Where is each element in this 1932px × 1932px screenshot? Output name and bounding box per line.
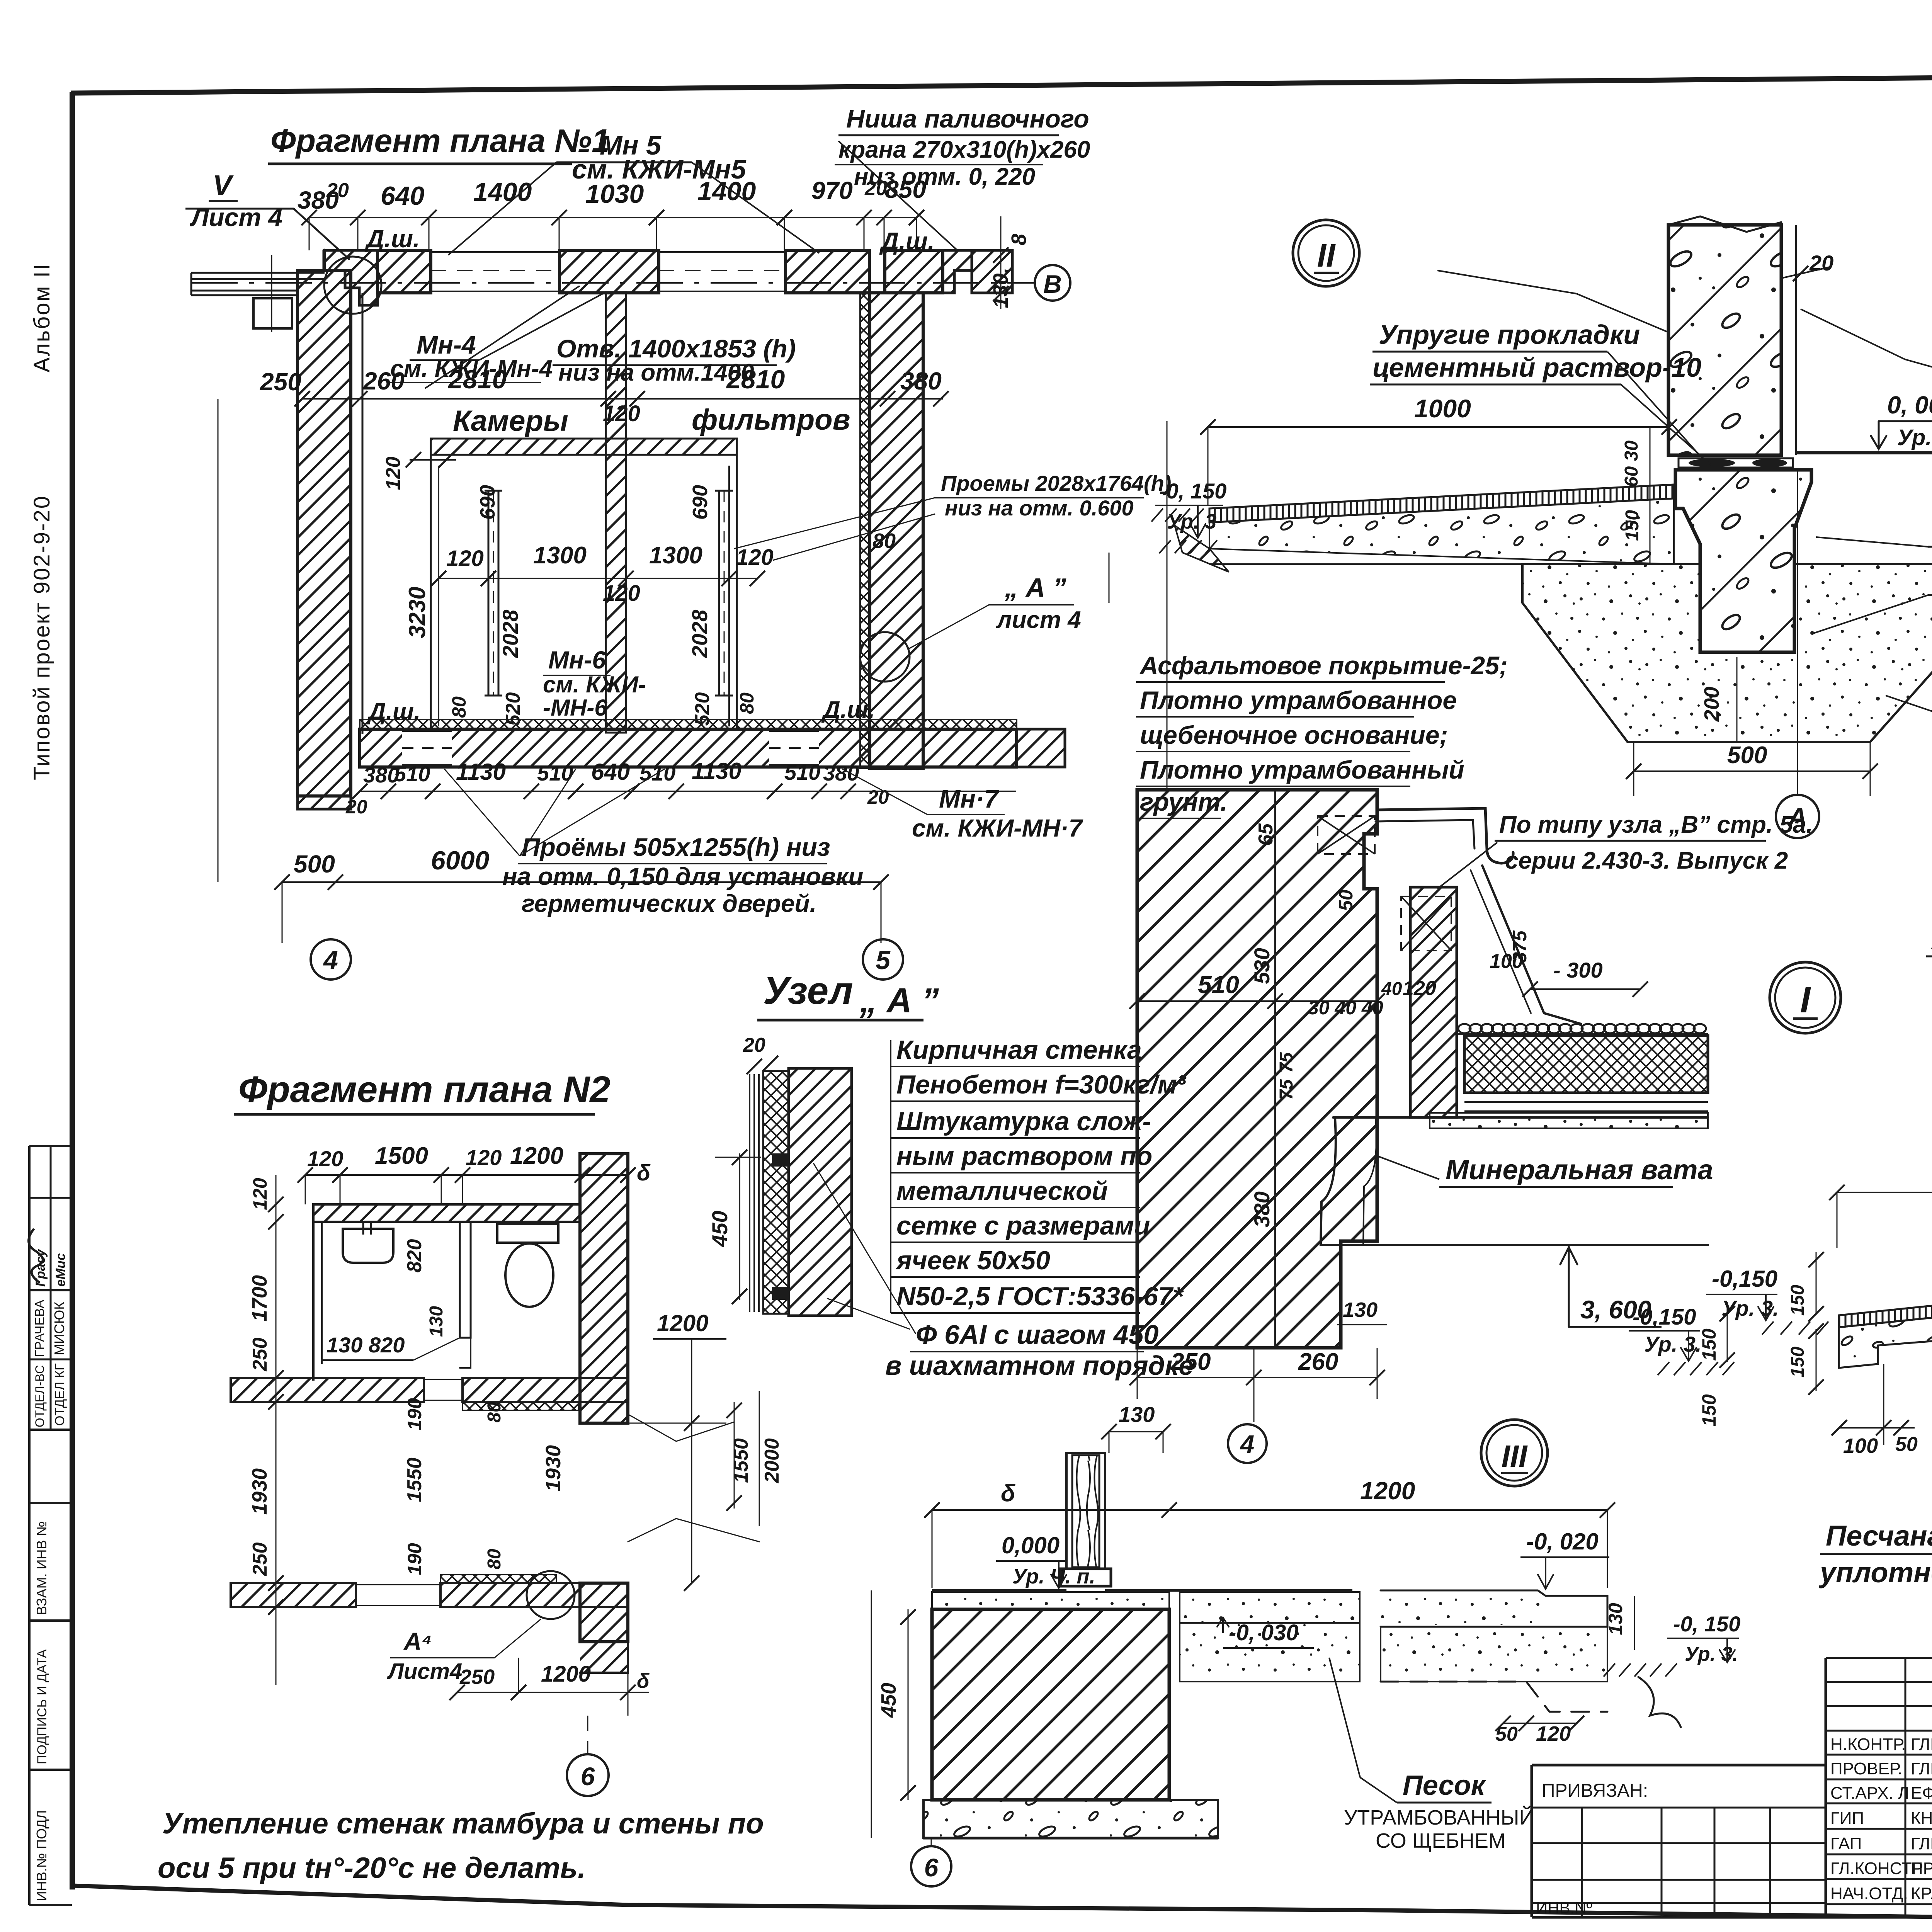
svg-text:см. КЖИ-МН·7: см. КЖИ-МН·7 (912, 814, 1083, 842)
column break marks top (1668, 216, 1781, 232)
svg-text:„ А ”: „ А ” (859, 981, 939, 1020)
detail circle on wall2 (527, 1571, 575, 1619)
dim 1500 (1837, 1192, 1932, 1193)
svg-text:820: 820 (403, 1239, 426, 1273)
svg-text:III: III (1502, 1439, 1528, 1473)
svg-text:120: 120 (382, 457, 405, 490)
left apron (1839, 1300, 1932, 1327)
gate frames МН-6 (488, 491, 490, 696)
svg-text:В: В (1043, 270, 1062, 298)
svg-text:Упругие прокладки: Упругие прокладки (1379, 320, 1640, 350)
svg-text:190: 190 (404, 1398, 425, 1430)
wall layers detail (к узлу А) (749, 1074, 750, 1312)
svg-text:1550: 1550 (730, 1438, 752, 1483)
svg-text:герметических дверей.: герметических дверей. (522, 889, 816, 917)
insulation strip under wall1 right part (463, 1402, 578, 1410)
svg-text:510: 510 (394, 762, 430, 786)
svg-text:Типовой проект 902-9-20: Типовой проект 902-9-20 (29, 495, 54, 780)
svg-text:А: А (1787, 803, 1807, 832)
svg-text:-0, 030: -0, 030 (1229, 1620, 1299, 1645)
plan2 top dim row 120 1500 120 1200 (305, 1174, 628, 1176)
svg-text:690: 690 (476, 485, 499, 520)
svg-text:Д.ш.: Д.ш. (367, 698, 420, 725)
svg-text:1550: 1550 (403, 1458, 426, 1502)
svg-text:Н.КОНТР.: Н.КОНТР. (1830, 1735, 1906, 1754)
svg-text:Ф 6АI с шагом 450: Ф 6АI с шагом 450 (916, 1320, 1158, 1350)
svg-text:-МН-6: -МН-6 (543, 695, 607, 721)
node I: big brick wall section (1137, 790, 1377, 1348)
footing below (923, 1800, 1218, 1838)
svg-text:Отв. 1400х1853 (h): Отв. 1400х1853 (h) (556, 334, 796, 363)
svg-text:250: 250 (249, 1338, 271, 1372)
dim 1000 (1208, 426, 1669, 428)
svg-text:500: 500 (294, 850, 335, 878)
svg-text:-0,150: -0,150 (1633, 1304, 1696, 1330)
inner rooms of plan1 (431, 439, 737, 455)
svg-text:Ур. 3.: Ур. 3. (1721, 1296, 1779, 1320)
plan2 bottom dims (457, 1692, 649, 1693)
svg-text:150: 150 (1787, 1347, 1808, 1378)
stamp signatures (29, 1229, 43, 1283)
svg-text:оси 5 при tн°-20°с не дел: оси 5 при tн°-20°с не делать. (158, 1852, 586, 1884)
plan1 left outer wall (298, 270, 351, 796)
svg-text:ЕФРЕМОВА: ЕФРЕМОВА (1911, 1784, 1932, 1803)
svg-text:1200: 1200 (510, 1143, 563, 1169)
roof gravel chain (1458, 1024, 1706, 1033)
svg-text:1300: 1300 (649, 542, 702, 569)
svg-text:Узел: Узел (763, 969, 853, 1012)
svg-text:80: 80 (484, 1402, 505, 1423)
node I circle marker (1770, 962, 1841, 1033)
svg-text:60 30: 60 30 (1621, 440, 1642, 487)
svg-text:Мн-6: Мн-6 (548, 646, 606, 674)
wood door post (node III) (1066, 1453, 1105, 1569)
svg-text:120: 120 (446, 546, 484, 571)
svg-text:4: 4 (323, 946, 338, 975)
svg-text:ПОДПИСЬ И ДАТА: ПОДПИСЬ И ДАТА (35, 1649, 49, 1764)
svg-text:75: 75 (1276, 1079, 1297, 1100)
svg-text:30 40 40: 30 40 40 (1308, 997, 1383, 1019)
svg-text:8: 8 (1007, 234, 1031, 245)
svg-text:120: 120 (603, 581, 640, 606)
svg-text:150: 150 (1698, 1394, 1720, 1427)
svg-text:сетке с размерами: сетке с размерами (896, 1211, 1150, 1240)
svg-text:Минеральная вата: Минеральная вата (1446, 1155, 1713, 1185)
node II column (1668, 225, 1781, 455)
svg-text:250: 250 (260, 368, 301, 396)
svg-text:- 300: - 300 (1553, 958, 1603, 982)
roof insulation slab (crosshatch) (1464, 1036, 1708, 1093)
svg-text:2000: 2000 (761, 1438, 783, 1483)
svg-text:δ: δ (637, 1160, 651, 1185)
svg-text:еМис: еМис (53, 1253, 68, 1287)
svg-text:НАЧ.ОТД.: НАЧ.ОТД. (1830, 1884, 1908, 1903)
svg-text:1200: 1200 (657, 1310, 708, 1336)
svg-text:640: 640 (381, 181, 425, 211)
svg-text:уплотненная щебнем: уплотненная щебнем (1818, 1556, 1932, 1588)
svg-text:120: 120 (249, 1178, 271, 1210)
dim 120 1300 1300 120 (439, 578, 757, 579)
450 dim (908, 1609, 909, 1800)
svg-text:Ниша паливочного: Ниша паливочного (846, 104, 1089, 133)
svg-text:„ А ”: „ А ” (1004, 573, 1066, 603)
axis circle 6 (plan2) (567, 1754, 609, 1796)
plan1 right outer wall (870, 293, 923, 768)
svg-text:-0, 150: -0, 150 (1159, 479, 1226, 503)
plan2 top-right wall block (580, 1154, 628, 1423)
elastic gaskets (black) (1679, 458, 1793, 468)
title block left box ПРИВЯЗАН (1532, 1764, 1826, 1767)
svg-text:Ур. 3.: Ур. 3. (1685, 1643, 1738, 1665)
svg-text:1130: 1130 (692, 758, 742, 784)
svg-text:2028: 2028 (687, 609, 712, 658)
svg-text:1000: 1000 (1414, 394, 1471, 423)
svg-text:Кирпичная стенка: Кирпичная стенка (896, 1035, 1142, 1065)
svg-text:-0, 020: -0, 020 (1526, 1529, 1599, 1554)
roof slab / beam (1333, 1116, 1708, 1119)
axis circle A below node II (1776, 795, 1819, 838)
svg-text:δ: δ (1001, 1480, 1015, 1507)
floor line right of column (1796, 451, 1932, 454)
svg-text:ГРАЧЕВА: ГРАЧЕВА (32, 1299, 47, 1357)
svg-text:40: 40 (1381, 979, 1402, 999)
top dim line b / 1200 (932, 1509, 1169, 1511)
svg-text:380: 380 (1250, 1191, 1274, 1227)
plan2 left dim chain (276, 1175, 277, 1685)
bottom dims 250 260 (1137, 1377, 1377, 1378)
svg-text:510: 510 (1198, 971, 1239, 998)
node I dims (1137, 1000, 1377, 1002)
svg-text:530: 530 (1250, 948, 1274, 984)
svg-text:-0,150: -0,150 (1712, 1266, 1777, 1292)
svg-text:50: 50 (1495, 1723, 1518, 1745)
svg-text:120: 120 (736, 545, 774, 570)
plan2 top wall (313, 1204, 580, 1222)
svg-text:ным раствором по: ным раствором по (896, 1141, 1152, 1171)
svg-text:Д.ш.: Д.ш. (364, 225, 420, 253)
right end pieces of top wall (943, 250, 972, 293)
svg-text:Штукатурка слож-: Штукатурка слож- (896, 1107, 1151, 1136)
rebar leader into column (1577, 294, 1668, 332)
plan2 middle wall 1 (231, 1378, 424, 1402)
svg-text:120: 120 (307, 1146, 343, 1171)
svg-text:ИНВ.№ ПОДЛ: ИНВ.№ ПОДЛ (34, 1810, 49, 1901)
svg-text:Камеры: Камеры (453, 405, 568, 437)
svg-text:250: 250 (249, 1543, 271, 1577)
door openings in bottom band (402, 731, 452, 765)
svg-text:ГЛ.КОНСТР: ГЛ.КОНСТР (1830, 1859, 1923, 1878)
svg-text:Плотно утрамбованное: Плотно утрамбованное (1140, 686, 1457, 714)
foundation beam (1675, 470, 1811, 652)
svg-text:130: 130 (1119, 1402, 1155, 1427)
svg-text:ИНВ.Nº: ИНВ.Nº (1536, 1899, 1592, 1917)
svg-text:970: 970 (811, 177, 853, 204)
svg-text:ГАП: ГАП (1830, 1834, 1862, 1853)
svg-text:3230: 3230 (404, 587, 430, 638)
svg-text:По типу узла „В” стр. 5а.: По типу узла „В” стр. 5а. (1499, 811, 1813, 838)
svg-text:75: 75 (1276, 1052, 1297, 1073)
svg-text:130: 130 (1343, 1298, 1378, 1321)
parapet flashing profile (1377, 808, 1513, 863)
svg-text:металлической: металлической (896, 1176, 1108, 1206)
svg-text:1400: 1400 (473, 177, 532, 207)
svg-text:Фрагмент плана N2: Фрагмент плана N2 (238, 1069, 611, 1110)
svg-text:20: 20 (867, 786, 889, 808)
svg-text:200: 200 (1700, 687, 1723, 722)
svg-text:фильтров: фильтров (692, 403, 850, 436)
svg-text:ОТДЕЛ-ВС: ОТДЕЛ-ВС (33, 1365, 47, 1427)
svg-text:низ отм. 0, 220: низ отм. 0, 220 (854, 163, 1035, 190)
floor layers right of post (1180, 1592, 1360, 1623)
plan2 right dim chains 1550 2000 (734, 1402, 735, 1509)
wooden plug dashed boxes (1318, 816, 1375, 854)
svg-text:4: 4 (1240, 1430, 1255, 1458)
svg-text:6: 6 (924, 1853, 939, 1882)
plan2 left wall (312, 1204, 315, 1381)
axis circles 4 and 5 (311, 939, 351, 980)
svg-text:1130: 1130 (456, 759, 506, 785)
svg-text:МИСЮК: МИСЮК (51, 1302, 67, 1355)
right slab section (1381, 1590, 1607, 1627)
svg-text:260: 260 (363, 367, 405, 395)
svg-text:А⁴: А⁴ (403, 1628, 432, 1655)
svg-text:1200: 1200 (1360, 1477, 1415, 1505)
foundation wall block (932, 1609, 1169, 1800)
svg-text:крана 270х310(h)х260: крана 270х310(h)х260 (838, 136, 1090, 163)
svg-text:100: 100 (1843, 1434, 1878, 1458)
node II circle marker (1293, 220, 1359, 286)
svg-text:1300: 1300 (533, 542, 587, 569)
svg-text:1930: 1930 (248, 1468, 271, 1515)
svg-text:Лист4: Лист4 (387, 1659, 462, 1684)
floor line and slab left (932, 1589, 1066, 1592)
dim row 500 6000 (282, 881, 881, 883)
soil at far left (1151, 509, 1163, 522)
inner wall line (1274, 790, 1276, 1348)
svg-text:ПРИВЯЗАН:: ПРИВЯЗАН: (1542, 1781, 1648, 1801)
plan2 bottom-right block (580, 1583, 628, 1642)
svg-text:2028: 2028 (498, 609, 522, 658)
svg-text:лист 4: лист 4 (996, 607, 1081, 633)
svg-text:20: 20 (326, 179, 349, 202)
title block: central signature table (1826, 1657, 1932, 1659)
svg-text:Ур. Ч. п.: Ур. Ч. п. (1012, 1565, 1095, 1588)
svg-text:СО ЩЕБНЕМ: СО ЩЕБНЕМ (1376, 1829, 1506, 1852)
axis circle 4 under node I (1228, 1424, 1267, 1463)
svg-text:375: 375 (1509, 930, 1531, 963)
svg-text:450: 450 (707, 1211, 732, 1247)
svg-text:V: V (213, 169, 234, 201)
parapet wall column (1410, 887, 1457, 1117)
dims 50 120 (1503, 1723, 1577, 1724)
toilet (497, 1224, 558, 1243)
top dimension tier: 380 20 640 1400 1030 1400 970 20 850 (309, 217, 917, 218)
svg-text:Песок: Песок (1403, 1770, 1486, 1801)
svg-text:Ур. Ч. п.: Ур. Ч. п. (1897, 425, 1932, 450)
svg-text:Асфальтовое покрытие-25;: Асфальтовое покрытие-25; (1139, 651, 1508, 680)
dim row 380 510 1130 510 640 510 1130 510 380 (360, 791, 1016, 792)
svg-text:см. КЖИ-: см. КЖИ- (543, 672, 646, 697)
dims 100 50 (1839, 1427, 1915, 1429)
svg-text:510: 510 (784, 760, 820, 784)
svg-text:ВЗАМ. ИНВ №: ВЗАМ. ИНВ № (34, 1521, 49, 1615)
svg-text:Мн·7: Мн·7 (939, 784, 1000, 813)
svg-text:150: 150 (1698, 1328, 1720, 1361)
svg-text:1500: 1500 (375, 1143, 428, 1169)
plan1 bottom wall band (360, 729, 1017, 767)
svg-text:120: 120 (466, 1145, 502, 1170)
svg-text:190: 190 (404, 1543, 425, 1575)
svg-text:СТ.АРХ. Л: СТ.АРХ. Л (1830, 1784, 1909, 1803)
long extension line (1167, 421, 1168, 788)
wood plugs in wall detail (772, 1153, 788, 1167)
svg-text:500: 500 (1727, 742, 1767, 769)
svg-text:ОТДЕЛ КГ: ОТДЕЛ КГ (53, 1363, 67, 1426)
svg-text:δ: δ (637, 1669, 650, 1692)
svg-text:Утепление стенак тамбура и: Утепление стенак тамбура и стены по (162, 1807, 764, 1840)
svg-text:0, 000: 0, 000 (1887, 391, 1932, 419)
svg-text:50: 50 (1335, 889, 1357, 911)
svg-text:низ на отм. 0.600: низ на отм. 0.600 (945, 496, 1134, 520)
svg-text:80: 80 (872, 529, 896, 553)
plan1 top wall band with openings (324, 250, 378, 305)
svg-text:120: 120 (1536, 1722, 1571, 1745)
svg-text:250: 250 (1170, 1349, 1211, 1375)
svg-text:КНЯГИНИЧЕВ: КНЯГИНИЧЕВ (1911, 1809, 1932, 1828)
svg-text:Песчаная подушка: Песчаная подушка (1826, 1520, 1932, 1552)
svg-text:6000: 6000 (431, 846, 489, 875)
svg-text:80: 80 (736, 692, 758, 714)
svg-text:ГЛЕБОВ: ГЛЕБОВ (1911, 1834, 1932, 1853)
svg-text:80: 80 (484, 1549, 505, 1570)
asphalt band sloping left of column (1209, 485, 1674, 522)
partition between bathrooms (460, 1222, 471, 1338)
svg-text:-0, 150: -0, 150 (1673, 1612, 1740, 1636)
svg-text:20: 20 (743, 1034, 765, 1056)
svg-text:80: 80 (448, 696, 470, 718)
svg-text:II: II (1317, 237, 1336, 274)
svg-text:130: 130 (426, 1306, 447, 1337)
border frame (70, 92, 75, 1889)
svg-text:150: 150 (1622, 510, 1643, 541)
left margin stamp table (28, 1146, 31, 1905)
svg-text:Фрагмент плана №1: Фрагмент плана №1 (270, 122, 610, 159)
svg-text:на отм. 0,150 для установк: на отм. 0,150 для установки (502, 862, 864, 890)
svg-text:Плотно утрамбованный: Плотно утрамбованный (1140, 755, 1464, 784)
sand pit of node II (1522, 564, 1932, 742)
axis circle 6 (node III) (911, 1846, 951, 1886)
svg-text:I: I (1800, 979, 1811, 1020)
svg-text:250: 250 (459, 1665, 495, 1689)
sink (343, 1229, 393, 1263)
svg-text:Лист 4: Лист 4 (190, 203, 282, 231)
svg-text:ГИП: ГИП (1830, 1809, 1864, 1828)
svg-text:УТРАМБОВАННЫЙ: УТРАМБОВАННЫЙ (1344, 1806, 1534, 1829)
svg-text:1930: 1930 (542, 1445, 565, 1492)
svg-text:2810: 2810 (726, 365, 785, 394)
svg-text:260: 260 (1298, 1349, 1338, 1375)
svg-text:690: 690 (689, 485, 712, 520)
door gap lines (424, 1379, 463, 1380)
dim row 260 2810 120 2810 380 (302, 398, 943, 400)
svg-text:Проемы 2028х1764(h): Проемы 2028х1764(h) (941, 471, 1171, 495)
svg-text:низ на отм.1400: низ на отм.1400 (558, 359, 754, 386)
node III circle marker (1481, 1420, 1548, 1486)
svg-text:серии 2.430-3. Выпуск 2: серии 2.430-3. Выпуск 2 (1505, 847, 1788, 874)
roof screed dotted (1430, 1113, 1708, 1128)
svg-text:640: 640 (591, 759, 630, 785)
dim 130 (door post) (1109, 1431, 1163, 1432)
svg-text:ячеек 50х50: ячеек 50х50 (895, 1246, 1050, 1275)
svg-text:Мн-4: Мн-4 (417, 330, 476, 359)
svg-text:2810: 2810 (447, 365, 507, 394)
svg-text:ГЛЕБОВ: ГЛЕБОВ (1911, 1735, 1932, 1754)
svg-text:ПРОВЕР.: ПРОВЕР. (1830, 1759, 1902, 1778)
extension lines from wall to dim tier (309, 218, 310, 250)
svg-text:0,000: 0,000 (1002, 1532, 1060, 1558)
axis dash-dot line through top wall (191, 282, 1036, 284)
detail circle at corner (324, 257, 381, 314)
svg-text:щебеночное основание;: щебеночное основание; (1140, 721, 1448, 749)
svg-text:130 820: 130 820 (327, 1333, 405, 1357)
svg-text:ПРОНИН: ПРОНИН (1911, 1859, 1932, 1878)
plan2 middle wall 2 (231, 1583, 356, 1607)
svg-text:150: 150 (1787, 1285, 1808, 1316)
svg-text:450: 450 (877, 1683, 900, 1718)
svg-text:Альбом II: Альбом II (29, 263, 54, 372)
svg-text:цементный раствор-10: цементный раствор-10 (1372, 352, 1701, 383)
svg-text:ГЛЕБОВ: ГЛЕБОВ (1911, 1759, 1932, 1778)
svg-text:50: 50 (1895, 1433, 1918, 1456)
svg-text:20: 20 (345, 796, 367, 818)
svg-text:1200: 1200 (541, 1662, 591, 1687)
svg-text:в шахматном порядке: в шахматном порядке (885, 1350, 1194, 1381)
left edge pipe lines (191, 272, 325, 274)
svg-text:1700: 1700 (248, 1275, 271, 1321)
svg-text:Д.ш.: Д.ш. (879, 227, 935, 255)
svg-text:Грасу: Грасу (33, 1248, 48, 1287)
svg-text:380: 380 (823, 761, 859, 785)
svg-text:5: 5 (876, 946, 891, 975)
svg-text:120: 120 (1403, 977, 1436, 1000)
svg-text:6: 6 (581, 1762, 595, 1791)
axis circle B (1035, 265, 1070, 301)
svg-text:130: 130 (1605, 1603, 1626, 1635)
svg-text:Проёмы 505х1255(h) низ: Проёмы 505х1255(h) низ (522, 833, 830, 861)
svg-text:КРАСАВИН: КРАСАВИН (1911, 1884, 1932, 1903)
insulation strip on bottom band (360, 719, 1017, 730)
svg-text:65: 65 (1255, 823, 1277, 846)
svg-text:см. КЖИ-Мн5: см. КЖИ-Мн5 (572, 154, 747, 184)
